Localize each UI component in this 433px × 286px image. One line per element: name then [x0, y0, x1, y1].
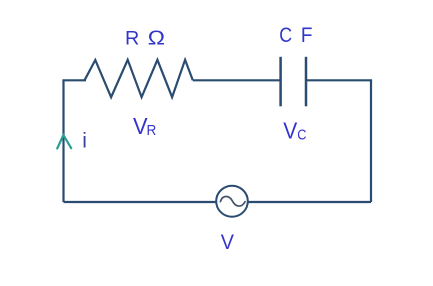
wire bottom left segment — [64, 201, 218, 203]
capacitor C left plate — [279, 57, 282, 107]
wire top-right segment — [306, 79, 372, 81]
wire bottom right segment — [247, 201, 371, 203]
svg-text:C: C — [297, 127, 306, 143]
svg-text:F: F — [301, 23, 313, 47]
svg-text:V: V — [283, 117, 298, 143]
resistor R zigzag — [85, 60, 193, 97]
svg-text:C: C — [279, 23, 292, 47]
capacitor C right plate — [305, 57, 308, 107]
svg-text:Ω: Ω — [148, 27, 165, 49]
wire right vertical — [370, 80, 372, 202]
svg-text:R: R — [125, 27, 139, 49]
wire top-left segment — [62, 79, 86, 81]
wire top-middle segment — [193, 79, 281, 81]
svg-text:i: i — [82, 129, 87, 152]
svg-text:V: V — [221, 230, 235, 254]
wire left vertical — [62, 80, 64, 202]
AC source V circle — [216, 186, 248, 217]
AC source sine wave — [220, 196, 245, 206]
current arrow i — [57, 135, 71, 149]
svg-text:R: R — [147, 123, 157, 139]
